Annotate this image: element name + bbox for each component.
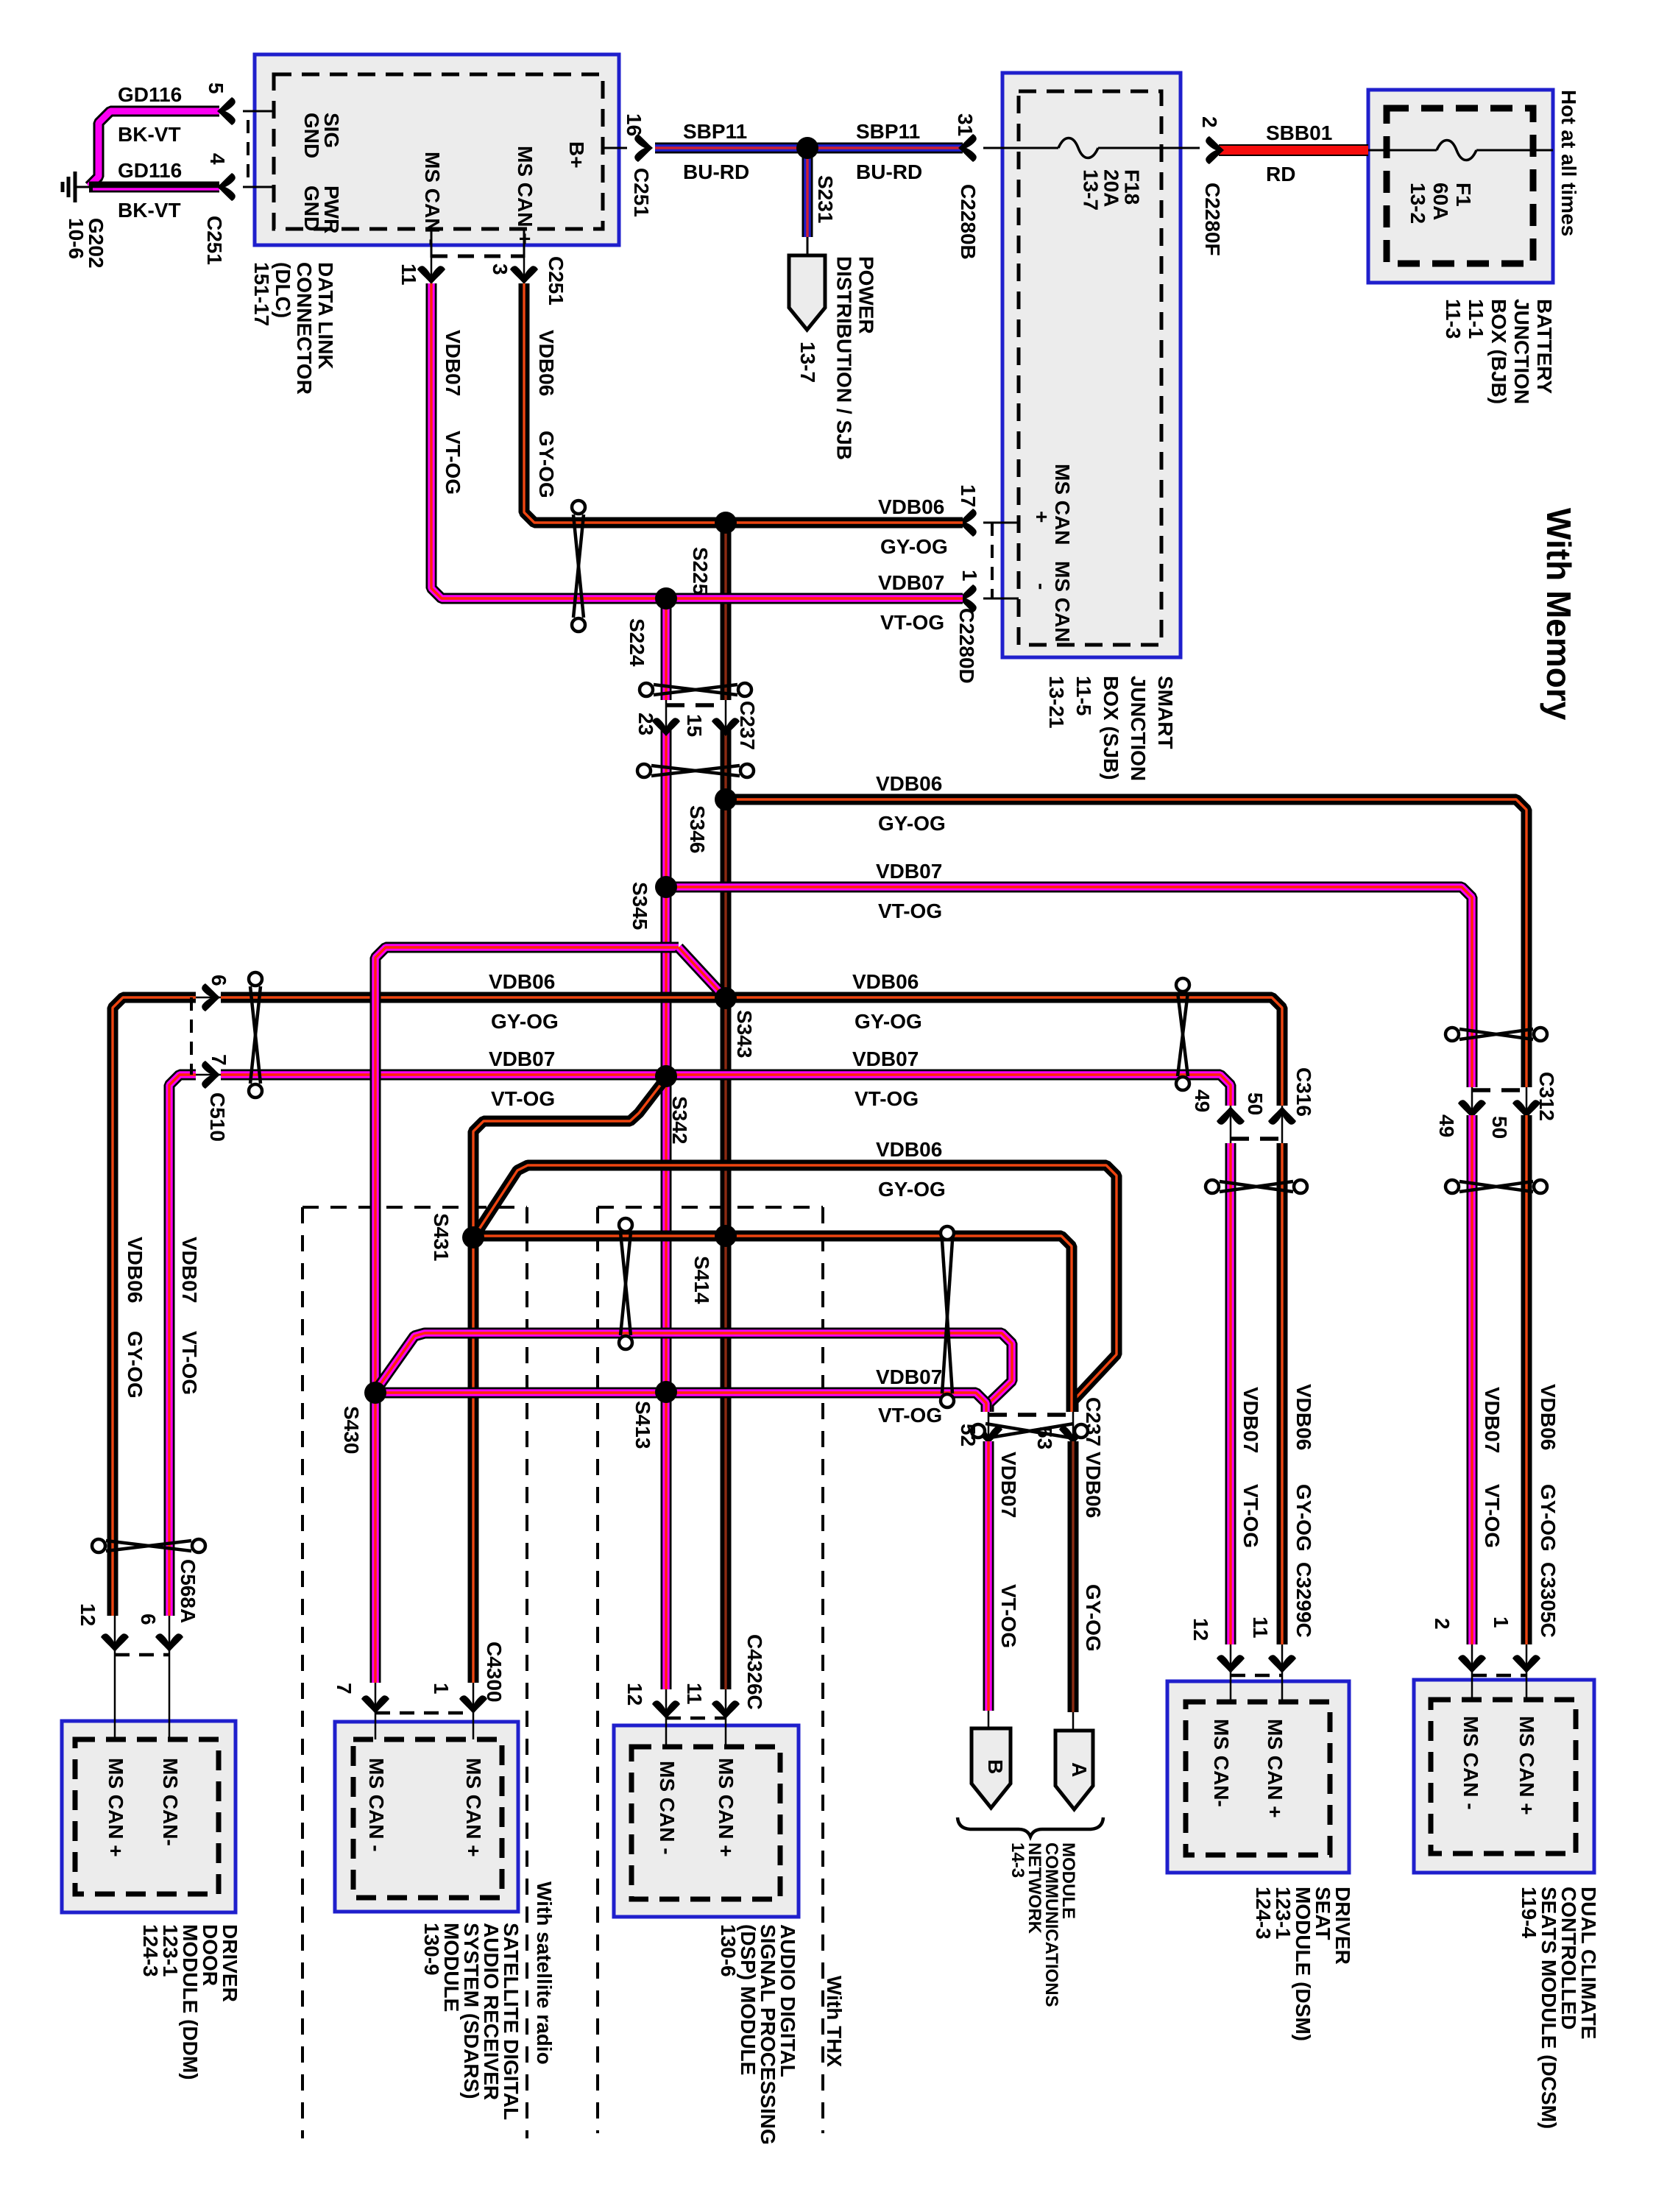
- wire VDB06 S431-S414 run to C237 pin53: [473, 1236, 1072, 1412]
- svg-text:GY-OG: GY-OG: [1537, 1484, 1560, 1552]
- pin 16 B+ line: [603, 147, 627, 149]
- svg-text:GY-OG: GY-OG: [878, 812, 946, 835]
- svg-text:4: 4: [206, 153, 229, 165]
- svg-text:VDB06: VDB06: [489, 970, 555, 993]
- svg-text:VDB06: VDB06: [878, 495, 944, 518]
- pin 17 MS CAN + line: [958, 509, 977, 537]
- pin 4 PWR GND line: [243, 186, 274, 188]
- svg-text:2: 2: [1198, 116, 1221, 128]
- ground G202: [75, 186, 89, 188]
- svg-text:B: B: [984, 1759, 1007, 1774]
- svg-text:MS CAN -: MS CAN -: [421, 152, 444, 246]
- wire VDB07 VT-OG C510 line: DDM corner to S342 to C316 corner: [169, 1075, 196, 1616]
- wire VDB07 branch to S343 via diagonal: [375, 947, 679, 1683]
- svg-text:VDB07: VDB07: [878, 571, 944, 594]
- svg-text:VDB06: VDB06: [1292, 1384, 1315, 1450]
- svg-text:SBP11: SBP11: [683, 120, 747, 143]
- svg-text:MS CAN +: MS CAN +: [1515, 1716, 1538, 1815]
- svg-text:49: 49: [1191, 1089, 1214, 1112]
- svg-text:49: 49: [1435, 1114, 1458, 1137]
- svg-text:MS CAN -: MS CAN -: [365, 1758, 388, 1852]
- svg-text:BOX (BJB): BOX (BJB): [1487, 299, 1510, 404]
- connector C2280D dashed face: [991, 523, 994, 598]
- svg-text:+: +: [1030, 511, 1053, 523]
- svg-text:VDB06: VDB06: [1082, 1452, 1105, 1518]
- wire GD116 BK-VT pin4: [89, 182, 219, 193]
- svg-text:S224: S224: [626, 618, 648, 667]
- pin 5 SIG GND line: [243, 110, 274, 113]
- wire VDB06 to pentagon A: [1068, 1441, 1079, 1712]
- wire VDB06 branch from S342 diagonal to S431 vertical: [473, 1078, 666, 1683]
- svg-text:VT-OG: VT-OG: [1481, 1484, 1504, 1548]
- fuse F1 60A: [1368, 149, 1437, 152]
- splice S225: [715, 512, 737, 534]
- svg-text:GND: GND: [300, 113, 323, 158]
- svg-text:JUNCTION: JUNCTION: [1127, 676, 1150, 781]
- brace module communications network: [958, 1817, 1103, 1837]
- splice S413: [655, 1381, 677, 1403]
- svg-text:52: 52: [957, 1424, 980, 1446]
- svg-text:S431: S431: [430, 1213, 453, 1261]
- svg-text:VT-OG: VT-OG: [1239, 1484, 1262, 1548]
- svg-text:VDB07: VDB07: [852, 1047, 919, 1070]
- svg-text:S430: S430: [340, 1406, 363, 1454]
- wire VDB06 C316 to DSM pin11: [1277, 1143, 1288, 1644]
- svg-text:130-6: 130-6: [717, 1924, 740, 1977]
- svg-text:13-21: 13-21: [1045, 676, 1068, 729]
- svg-text:23: 23: [634, 713, 657, 735]
- splice S430: [364, 1382, 386, 1404]
- wire SBP11 to power distribution: [802, 156, 813, 237]
- svg-text:3: 3: [489, 264, 512, 275]
- splice S231: [796, 137, 818, 159]
- svg-text:MS CAN-: MS CAN-: [159, 1758, 182, 1846]
- svg-text:VDB07: VDB07: [1481, 1387, 1504, 1453]
- svg-text:C568A: C568A: [177, 1559, 199, 1623]
- twisted pair S431 branch: [620, 1232, 631, 1335]
- wire VDB07 S430 diagonal to upper run to C237 pin52: [375, 1333, 1012, 1412]
- pin 31 line C2280B: [958, 134, 977, 162]
- svg-text:124-3: 124-3: [1252, 1887, 1275, 1940]
- svg-text:11: 11: [397, 264, 420, 286]
- splice S343: [715, 987, 737, 1009]
- svg-text:12: 12: [623, 1683, 646, 1706]
- svg-text:With Memory: With Memory: [1540, 508, 1578, 721]
- svg-text:POWER: POWER: [855, 256, 878, 334]
- svg-text:BOX (SJB): BOX (SJB): [1100, 676, 1122, 780]
- box: DRIVER DOOR MODULE (DDM): [62, 1721, 236, 1912]
- connector C568A pins 12/6: [114, 1616, 116, 1655]
- splice S345: [655, 876, 677, 898]
- svg-text:VDB07: VDB07: [1239, 1387, 1262, 1453]
- svg-text:10-6: 10-6: [65, 218, 88, 259]
- wire VDB07 C316 to DSM pin12: [1225, 1143, 1236, 1644]
- svg-text:C4326C: C4326C: [743, 1634, 766, 1710]
- svg-text:Hot at all times: Hot at all times: [1557, 90, 1580, 236]
- svg-text:VT-OG: VT-OG: [854, 1087, 919, 1110]
- svg-text:16: 16: [623, 113, 645, 136]
- svg-text:S414: S414: [690, 1256, 713, 1304]
- svg-text:F1: F1: [1452, 183, 1475, 207]
- svg-text:11-1: 11-1: [1465, 299, 1487, 339]
- box: DCSM MODULE: [1414, 1680, 1594, 1873]
- twisted pair above C312: [1459, 1029, 1533, 1039]
- svg-text:VDB07: VDB07: [876, 860, 942, 883]
- svg-text:VDB06: VDB06: [535, 330, 558, 396]
- svg-text:F18: F18: [1121, 169, 1144, 205]
- connector C4326C pins 12/11: [665, 1689, 668, 1718]
- connector C510 pins 6/7: [196, 997, 221, 999]
- svg-text:C510: C510: [206, 1092, 229, 1142]
- box: DRIVER SEAT MODULE (DSM): [1167, 1681, 1349, 1873]
- wire VDB07 to pentagon B: [983, 1441, 994, 1711]
- svg-text:VT-OG: VT-OG: [880, 611, 944, 634]
- svg-text:130-9: 130-9: [420, 1923, 443, 1976]
- svg-text:VT-OG: VT-OG: [878, 900, 942, 922]
- svg-text:VT-OG: VT-OG: [878, 1404, 942, 1427]
- svg-text:GY-OG: GY-OG: [535, 431, 558, 498]
- svg-text:With satellite radio: With satellite radio: [533, 1881, 556, 2065]
- svg-text:53: 53: [1033, 1427, 1056, 1449]
- svg-text:BU-RD: BU-RD: [683, 160, 749, 183]
- svg-text:-: -: [1030, 583, 1053, 590]
- svg-text:BU-RD: BU-RD: [856, 160, 922, 183]
- svg-text:1: 1: [1490, 1616, 1512, 1628]
- wire SBP11 BU-RD horizontal: [655, 143, 963, 154]
- dashed partition box: with satellite radio: [302, 1206, 527, 1209]
- twisted pair after C510: [250, 986, 261, 1084]
- svg-text:MS CAN +: MS CAN +: [715, 1758, 737, 1857]
- svg-text:BK-VT: BK-VT: [118, 123, 181, 146]
- svg-text:GY-OG: GY-OG: [124, 1331, 146, 1399]
- wire GD116 BK-VT pin5: [89, 111, 219, 186]
- splice S224: [655, 587, 677, 609]
- svg-text:DATA LINK: DATA LINK: [314, 262, 337, 370]
- connector C4300 pins 7/1: [375, 1683, 377, 1713]
- svg-text:C316: C316: [1292, 1067, 1315, 1117]
- pentagon B: [988, 1711, 990, 1728]
- svg-text:JUNCTION: JUNCTION: [1510, 299, 1533, 404]
- svg-text:VT-OG: VT-OG: [178, 1331, 201, 1395]
- wire VDB06 S346 branch to DCSM corner: [726, 799, 1526, 1087]
- svg-text:151-17: 151-17: [250, 262, 273, 326]
- svg-text:MS CAN +: MS CAN +: [514, 146, 537, 245]
- svg-text:GY-OG: GY-OG: [878, 1178, 946, 1201]
- svg-text:S225: S225: [689, 547, 712, 595]
- svg-text:SBP11: SBP11: [856, 120, 920, 143]
- svg-text:With THX: With THX: [823, 1976, 846, 2067]
- svg-text:RD: RD: [1266, 163, 1295, 185]
- box: SDARS MODULE: [335, 1722, 518, 1912]
- svg-text:20A: 20A: [1100, 169, 1123, 207]
- svg-text:C312: C312: [1535, 1072, 1558, 1121]
- twisted pair below C237 52/53: [986, 1424, 1074, 1438]
- svg-text:15: 15: [683, 714, 706, 737]
- svg-text:31: 31: [954, 113, 977, 136]
- connector C237 pins 52/53: [988, 1412, 990, 1443]
- svg-text:119-4: 119-4: [1518, 1887, 1540, 1938]
- wire VDB07 S345 branch to DCSM corner: [666, 887, 1472, 1087]
- svg-text:C2280B: C2280B: [957, 184, 980, 260]
- svg-text:MS CAN: MS CAN: [1051, 561, 1074, 642]
- svg-text:VDB06: VDB06: [124, 1237, 146, 1303]
- svg-text:C237: C237: [1082, 1397, 1105, 1446]
- svg-text:MS CAN +: MS CAN +: [1264, 1719, 1287, 1818]
- svg-text:11: 11: [1249, 1616, 1272, 1639]
- wire VDB07 VT-OG trunk upper: [661, 598, 672, 700]
- svg-text:S346: S346: [686, 805, 709, 853]
- svg-text:GY-OG: GY-OG: [1292, 1484, 1315, 1552]
- svg-text:B+: B+: [565, 141, 588, 169]
- svg-text:S413: S413: [631, 1401, 654, 1449]
- twisted pair below C316: [1220, 1181, 1293, 1192]
- svg-text:A: A: [1068, 1762, 1091, 1777]
- svg-text:GY-OG: GY-OG: [491, 1010, 559, 1033]
- svg-text:17: 17: [957, 484, 980, 507]
- svg-text:11-3: 11-3: [1442, 299, 1465, 339]
- svg-text:VDB06: VDB06: [876, 1138, 942, 1161]
- wire VDB07 VT-OG trunk lower: [661, 729, 672, 1689]
- svg-text:7: 7: [208, 1054, 230, 1066]
- svg-text:MS CAN: MS CAN: [1051, 464, 1074, 545]
- svg-text:MS CAN +: MS CAN +: [462, 1758, 485, 1857]
- svg-text:VDB07: VDB07: [997, 1452, 1020, 1518]
- wire VDB06 GY-OG trunk lower: [721, 729, 732, 1689]
- wire VDB07 C312 to DCSM pin2: [1467, 1115, 1478, 1644]
- svg-text:GD116: GD116: [118, 159, 182, 182]
- svg-text:GY-OG: GY-OG: [1082, 1584, 1105, 1652]
- svg-text:SBB01: SBB01: [1266, 121, 1332, 144]
- connector C251 dashed face left: [247, 120, 250, 178]
- wire VDB07 S430-S413 run to C237 pin52: [375, 1393, 986, 1412]
- power distribution pentagon: [789, 255, 825, 330]
- svg-text:6: 6: [137, 1614, 160, 1625]
- box: DSP MODULE: [614, 1725, 799, 1917]
- twisted pair before C316: [1178, 992, 1188, 1076]
- splice S431: [462, 1226, 484, 1248]
- svg-text:2: 2: [1431, 1618, 1454, 1630]
- svg-text:BATTERY: BATTERY: [1533, 299, 1556, 394]
- svg-text:C251: C251: [203, 216, 226, 265]
- svg-text:GD116: GD116: [118, 83, 182, 106]
- svg-text:GND: GND: [300, 185, 323, 231]
- wire VDB06 GY-OG trunk upper: [721, 523, 732, 700]
- svg-text:C3299C: C3299C: [1292, 1562, 1315, 1638]
- svg-text:13-7: 13-7: [796, 342, 819, 383]
- connector C316 pins 49/50: [1230, 1106, 1232, 1143]
- svg-text:11-5: 11-5: [1072, 676, 1095, 716]
- pin 1 MS CAN - line: [958, 584, 977, 612]
- wire VDB06 C312 to DCSM pin1: [1521, 1115, 1532, 1644]
- svg-text:12: 12: [1189, 1618, 1212, 1641]
- svg-text:C2280D: C2280D: [955, 608, 978, 684]
- svg-text:7: 7: [333, 1683, 355, 1695]
- svg-text:VT-OG: VT-OG: [442, 431, 464, 495]
- svg-text:GY-OG: GY-OG: [854, 1010, 922, 1033]
- svg-text:13-2: 13-2: [1406, 183, 1429, 224]
- svg-text:S345: S345: [629, 882, 651, 930]
- connector C312 pins 49/50: [1471, 1087, 1473, 1117]
- svg-text:S342: S342: [668, 1096, 691, 1144]
- pentagon A: [1072, 1712, 1075, 1731]
- twisted pair DLC to S225/S224: [573, 515, 584, 618]
- connector C3305C pins 2/1: [1471, 1644, 1473, 1675]
- svg-text:124-3: 124-3: [139, 1924, 162, 1977]
- svg-text:CONNECTOR: CONNECTOR: [293, 262, 316, 395]
- svg-text:12: 12: [77, 1603, 99, 1626]
- svg-text:5: 5: [205, 82, 227, 94]
- svg-text:11: 11: [683, 1683, 706, 1705]
- splice S342: [655, 1065, 677, 1087]
- wire VDB06 S431 diagonal to upper run to C237 pin53: [475, 1165, 1117, 1412]
- twisted pair before C237 52/53: [942, 1240, 952, 1393]
- pin 11 MS CAN - stub: [431, 229, 433, 258]
- svg-text:MS CAN +: MS CAN +: [105, 1758, 127, 1857]
- svg-text:14-3: 14-3: [1008, 1842, 1027, 1878]
- svg-text:VDB06: VDB06: [1537, 1384, 1560, 1450]
- svg-text:MS CAN -: MS CAN -: [656, 1761, 679, 1855]
- dashed partition box: with THX: [598, 1206, 823, 1209]
- svg-text:MS CAN -: MS CAN -: [1459, 1716, 1482, 1810]
- svg-text:C2280F: C2280F: [1201, 183, 1224, 256]
- svg-text:C251: C251: [545, 256, 567, 305]
- svg-text:VT-OG: VT-OG: [997, 1584, 1020, 1648]
- svg-text:DISTRIBUTION / SJB: DISTRIBUTION / SJB: [833, 256, 856, 460]
- svg-text:GY-OG: GY-OG: [880, 535, 948, 558]
- twisted pair below C312: [1459, 1181, 1533, 1192]
- fuse F18 20A: [1019, 147, 1058, 149]
- svg-text:BK-VT: BK-VT: [118, 199, 181, 222]
- svg-text:60A: 60A: [1429, 183, 1452, 220]
- svg-text:SMART: SMART: [1154, 676, 1177, 749]
- svg-text:C251: C251: [630, 168, 653, 217]
- svg-text:1: 1: [958, 570, 981, 582]
- box: BATTERY JUNCTION BOX (BJB): [1368, 90, 1553, 283]
- twisted pair above DDM: [106, 1541, 191, 1551]
- svg-text:1: 1: [430, 1683, 453, 1695]
- connector C237 pins 15/23: [665, 700, 668, 730]
- box: SMART JUNCTION BOX (SJB): [1002, 73, 1181, 657]
- svg-text:50: 50: [1244, 1092, 1267, 1115]
- wire VDB06 GY-OG C510 line: DDM corner to S343 to C316 corner: [113, 997, 196, 1616]
- pin 2 C2280F: [1206, 136, 1224, 164]
- svg-text:(DLC): (DLC): [272, 262, 294, 318]
- svg-text:MS CAN-: MS CAN-: [1210, 1719, 1233, 1807]
- splice S414: [715, 1225, 737, 1247]
- svg-text:C4300: C4300: [483, 1642, 506, 1703]
- wire VDB06 GY-OG from DLC pin3 to S225 to SJB pin17: [524, 283, 963, 523]
- connector C251 dashed face bottom: [431, 255, 524, 258]
- splice S346: [715, 788, 737, 810]
- svg-text:S343: S343: [733, 1010, 756, 1058]
- twisted pair above C237: [654, 685, 737, 695]
- svg-text:VDB07: VDB07: [178, 1237, 201, 1303]
- svg-text:50: 50: [1488, 1116, 1511, 1139]
- wire VDB07 VT-OG from DLC pin11 to S224 to SJB pin1: [431, 283, 963, 598]
- connector C3299C pins 12/11: [1230, 1644, 1232, 1675]
- svg-text:VT-OG: VT-OG: [491, 1087, 555, 1110]
- svg-text:VDB07: VDB07: [442, 330, 464, 396]
- box: DATA LINK CONNECTOR (DLC): [255, 54, 619, 245]
- svg-text:VDB06: VDB06: [876, 772, 942, 795]
- svg-text:VDB06: VDB06: [852, 970, 919, 993]
- pin 3 MS CAN + stub: [523, 229, 526, 258]
- wire SBB01 RD: [1219, 144, 1368, 156]
- twisted pair below C237: [651, 766, 740, 776]
- svg-text:VDB07: VDB07: [489, 1047, 555, 1070]
- svg-text:13-7: 13-7: [1080, 169, 1103, 211]
- svg-text:VDB07: VDB07: [876, 1365, 942, 1388]
- svg-text:6: 6: [208, 975, 230, 986]
- svg-text:C3305C: C3305C: [1537, 1562, 1560, 1638]
- svg-text:C237: C237: [736, 701, 759, 750]
- svg-text:S231: S231: [814, 175, 837, 223]
